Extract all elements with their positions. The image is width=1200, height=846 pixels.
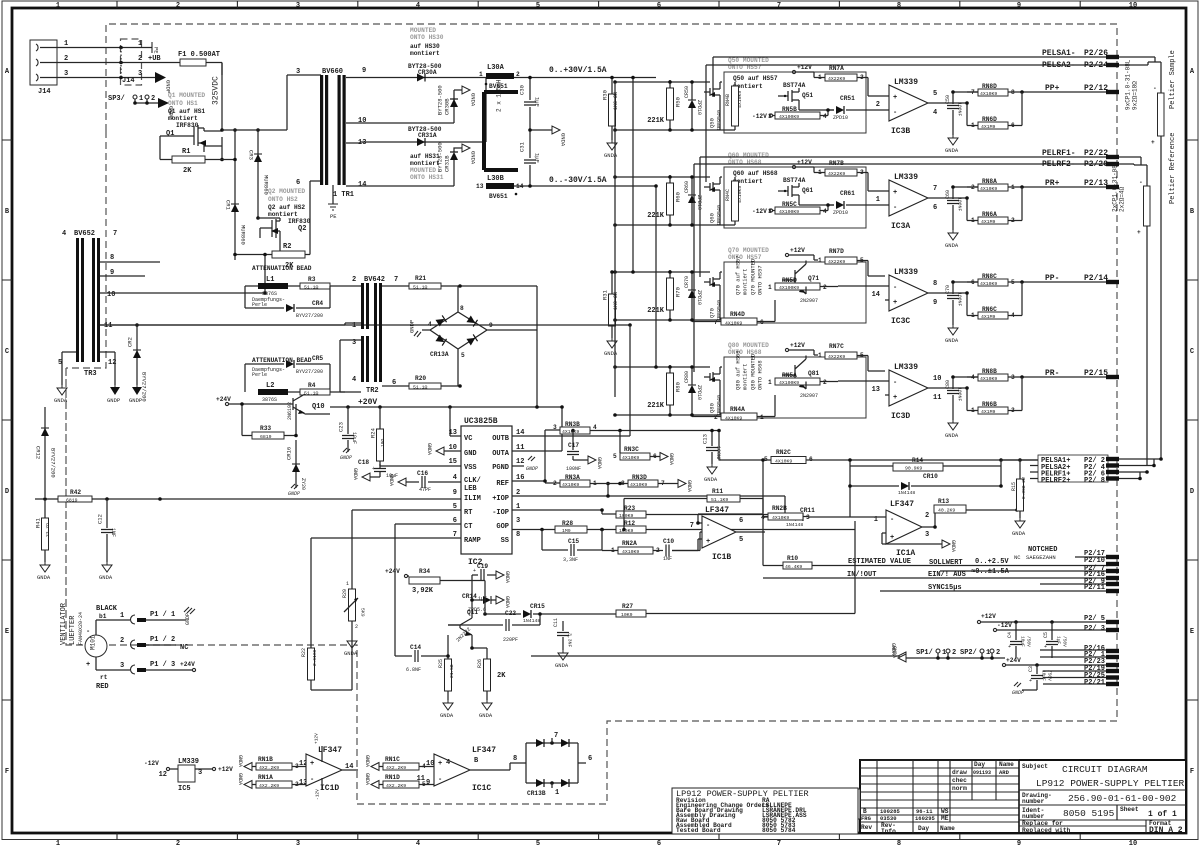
svg-text:1: 1 bbox=[818, 352, 822, 359]
svg-text:LM339: LM339 bbox=[894, 268, 918, 277]
svg-text:F: F bbox=[1190, 768, 1194, 776]
svg-text:RN4B: RN4B bbox=[725, 94, 731, 106]
transistor Q11 bbox=[448, 598, 478, 648]
svg-text:P2/24: P2/24 bbox=[1084, 61, 1108, 70]
svg-text:10: 10 bbox=[1129, 840, 1137, 846]
svg-text:10: 10 bbox=[358, 117, 366, 125]
svg-text:-: - bbox=[893, 379, 897, 387]
svg-text:TR3: TR3 bbox=[84, 370, 97, 378]
svg-text:90.9K9: 90.9K9 bbox=[905, 466, 922, 472]
resistor R11 bbox=[622, 488, 763, 531]
capacitor C30 bbox=[519, 76, 541, 130]
svg-text:GNDA: GNDA bbox=[555, 662, 569, 669]
svg-text:GNDP: GNDP bbox=[526, 466, 538, 472]
svg-text:9: 9 bbox=[362, 67, 366, 75]
capacitor C16 bbox=[388, 470, 461, 493]
svg-text:+UB: +UB bbox=[148, 55, 161, 63]
dotted link between pins bbox=[120, 48, 122, 78]
svg-text:ZPD10: ZPD10 bbox=[833, 210, 848, 216]
channel feed vertical A bbox=[614, 82, 616, 397]
svg-text:E: E bbox=[5, 628, 9, 636]
svg-text:ONTO HS68: ONTO HS68 bbox=[757, 360, 764, 390]
svg-text:Q70: Q70 bbox=[709, 308, 716, 318]
op-amp IC3B LM339 bbox=[876, 78, 967, 136]
transistor Q71 2N2907 bbox=[782, 261, 819, 305]
svg-text:Perle: Perle bbox=[252, 302, 267, 308]
svg-text:GNDA: GNDA bbox=[388, 474, 394, 486]
svg-text:C19: C19 bbox=[477, 563, 488, 570]
svg-text:RN3C: RN3C bbox=[624, 446, 639, 453]
svg-text:2N2907: 2N2907 bbox=[800, 298, 818, 304]
svg-text:1N4148: 1N4148 bbox=[786, 522, 803, 528]
resistor network RN7A bbox=[818, 65, 885, 96]
wire pelrf to reference bbox=[1119, 157, 1147, 186]
svg-text:ZPD10: ZPD10 bbox=[696, 290, 702, 305]
svg-text:montiert: montiert bbox=[410, 50, 440, 57]
connector J14 bbox=[30, 40, 57, 96]
diode bridge CR13B bbox=[513, 732, 592, 797]
svg-text:1NF: 1NF bbox=[663, 556, 672, 562]
svg-text:+24V: +24V bbox=[385, 568, 400, 575]
svg-text:1: 1 bbox=[942, 649, 946, 657]
svg-text:8: 8 bbox=[621, 480, 625, 487]
svg-text:2: 2 bbox=[120, 637, 124, 645]
svg-text:C4: C4 bbox=[1007, 632, 1013, 638]
svg-text:8: 8 bbox=[933, 280, 937, 288]
svg-text:IC1D: IC1D bbox=[320, 784, 339, 793]
mounting note bbox=[728, 247, 769, 261]
dashed small box around J14 second connector bbox=[121, 39, 142, 85]
svg-text:6: 6 bbox=[760, 319, 764, 326]
wires peltier returns bbox=[1119, 457, 1163, 480]
TITLE BLOCK bbox=[843, 760, 1186, 835]
svg-text:1µF: 1µF bbox=[534, 97, 541, 107]
svg-text:-: - bbox=[893, 284, 897, 292]
left revision grid bbox=[860, 760, 1019, 833]
svg-text:C17: C17 bbox=[568, 442, 579, 449]
svg-text:2: 2 bbox=[823, 379, 827, 386]
svg-text:1: 1 bbox=[56, 840, 60, 846]
resistor R10 bbox=[763, 513, 1108, 570]
op-amp IC3A LM339 bbox=[876, 173, 967, 231]
transistor Q60 bbox=[704, 167, 866, 228]
svg-text:OUTB: OUTB bbox=[492, 435, 510, 443]
SP1 SP2 jumpers bbox=[906, 649, 1005, 660]
svg-text:10: 10 bbox=[107, 291, 115, 299]
svg-text:2N6192: 2N6192 bbox=[287, 402, 293, 420]
zener CR70 bbox=[684, 272, 702, 320]
svg-text:R10: R10 bbox=[787, 555, 798, 562]
second J14 pin labels bbox=[122, 40, 142, 85]
resistor R24 bbox=[370, 407, 387, 466]
svg-text:GNDP: GNDP bbox=[288, 491, 300, 497]
svg-text:+: + bbox=[1137, 229, 1141, 236]
svg-text:RN7D: RN7D bbox=[829, 248, 844, 255]
svg-text:7: 7 bbox=[554, 732, 558, 740]
svg-text:Q81: Q81 bbox=[808, 370, 819, 377]
svg-text:R27: R27 bbox=[622, 603, 633, 610]
resistor network RN6C bbox=[965, 282, 1022, 320]
svg-text:ZPD10: ZPD10 bbox=[696, 385, 702, 400]
svg-text:3: 3 bbox=[296, 68, 300, 76]
IC5 LM339 supply box bbox=[144, 758, 233, 793]
svg-text:Q80: Q80 bbox=[709, 403, 716, 413]
svg-text:6: 6 bbox=[588, 755, 592, 763]
resistor network RN8C bbox=[967, 273, 1030, 287]
svg-text:13: 13 bbox=[872, 386, 880, 394]
svg-text:CR31B: CR31B bbox=[444, 155, 451, 172]
svg-text:C80: C80 bbox=[945, 380, 951, 389]
svg-text:4X22K9: 4X22K9 bbox=[828, 354, 845, 360]
svg-text:VENTILATOR: VENTILATOR bbox=[60, 602, 68, 645]
svg-text:4: 4 bbox=[446, 759, 450, 767]
svg-text:ZPD10: ZPD10 bbox=[696, 195, 702, 210]
svg-text:CT: CT bbox=[464, 523, 472, 531]
svg-text:RN1A: RN1A bbox=[258, 774, 273, 781]
svg-text:R60: R60 bbox=[675, 192, 682, 202]
+12V bbox=[785, 247, 818, 260]
svg-text:C15: C15 bbox=[568, 538, 579, 545]
inductor L30B bbox=[476, 175, 656, 200]
svg-text:NC: NC bbox=[1014, 554, 1021, 561]
svg-text:SS: SS bbox=[501, 537, 509, 545]
resistor R70 bbox=[647, 270, 681, 320]
resistor network RN8D bbox=[967, 83, 1030, 97]
svg-text:Q60 auf HS68: Q60 auf HS68 bbox=[733, 170, 778, 177]
svg-text:2: 2 bbox=[64, 55, 68, 63]
svg-text:51.1Ω: 51.1Ω bbox=[304, 391, 319, 397]
label BLACK b1 bbox=[96, 605, 118, 620]
svg-text:R50: R50 bbox=[675, 97, 682, 107]
resistor R26 bbox=[470, 646, 506, 719]
svg-text:GNDA: GNDA bbox=[99, 574, 113, 581]
svg-text:CR10: CR10 bbox=[923, 473, 938, 480]
svg-text:10: 10 bbox=[933, 375, 941, 383]
svg-text:4X10K9: 4X10K9 bbox=[622, 549, 639, 555]
svg-text:L1: L1 bbox=[266, 276, 274, 284]
resistor network RN3D bbox=[621, 474, 692, 492]
zener CR50 bbox=[684, 82, 702, 130]
svg-text:+: + bbox=[890, 534, 894, 542]
label rt RED bbox=[96, 674, 109, 691]
svg-text:ONTO HS57: ONTO HS57 bbox=[757, 265, 764, 295]
wire pelsa to sample bbox=[1119, 57, 1161, 93]
svg-text:GNDA: GNDA bbox=[945, 337, 959, 344]
resistor network RN2B bbox=[761, 505, 810, 521]
svg-text:R22: R22 bbox=[301, 648, 307, 657]
GNDA mid bbox=[528, 126, 566, 147]
svg-text:F: F bbox=[5, 768, 9, 776]
resistor R23 bbox=[600, 496, 785, 519]
svg-text:Q2 MOUNTED: Q2 MOUNTED bbox=[268, 188, 305, 195]
svg-text:C30: C30 bbox=[519, 85, 526, 95]
svg-text:6.8NF: 6.8NF bbox=[406, 667, 421, 673]
transformer TR2 BV642 bbox=[352, 276, 398, 395]
capacitor C80 bbox=[945, 375, 978, 420]
wire P2/3 bbox=[1084, 625, 1119, 633]
svg-text:4X10K9: 4X10K9 bbox=[630, 482, 647, 488]
svg-text:-: - bbox=[706, 522, 710, 530]
svg-text:2: 2 bbox=[138, 55, 142, 63]
svg-text:R2: R2 bbox=[283, 243, 291, 251]
svg-text:Info: Info bbox=[881, 828, 896, 835]
svg-text:B: B bbox=[863, 808, 867, 815]
svg-text:4X2.2K9: 4X2.2K9 bbox=[386, 765, 406, 771]
resistor network RN4D bbox=[692, 300, 775, 327]
svg-text:1: 1 bbox=[138, 40, 142, 48]
svg-text:R21: R21 bbox=[415, 275, 426, 282]
svg-text:CR12: CR12 bbox=[35, 446, 42, 459]
resistor R15 bbox=[1011, 460, 1027, 537]
motor M101 bbox=[85, 620, 130, 670]
+24V R34 bbox=[385, 568, 409, 578]
svg-text:SP3/: SP3/ bbox=[108, 95, 125, 103]
svg-text:GNDA: GNDA bbox=[504, 596, 510, 608]
wire P2/23 bbox=[1084, 658, 1119, 667]
capacitor C70 bbox=[945, 280, 978, 325]
svg-text:4X2.2K9: 4X2.2K9 bbox=[259, 783, 279, 789]
svg-text:6819: 6819 bbox=[66, 498, 78, 504]
svg-text:J14: J14 bbox=[122, 77, 135, 85]
svg-text:12: 12 bbox=[516, 458, 524, 466]
svg-text:J14: J14 bbox=[38, 88, 51, 96]
resistor network RN6B bbox=[965, 377, 1022, 415]
svg-text:-: - bbox=[86, 628, 90, 636]
svg-text:8: 8 bbox=[897, 840, 901, 846]
svg-text:8050 5195: 8050 5195 bbox=[1063, 808, 1115, 819]
diode CR1 bbox=[225, 128, 247, 260]
svg-text:RED: RED bbox=[96, 683, 109, 691]
svg-text:IC1C: IC1C bbox=[472, 784, 491, 793]
svg-text:100285: 100285 bbox=[880, 808, 901, 815]
ground GNDP bridge bbox=[409, 320, 422, 337]
svg-text:+: + bbox=[372, 466, 375, 472]
svg-text:PR+: PR+ bbox=[1045, 179, 1060, 188]
svg-text:+24V: +24V bbox=[1006, 657, 1021, 664]
svg-text:b1: b1 bbox=[99, 613, 107, 620]
svg-text:BV642: BV642 bbox=[364, 276, 385, 284]
svg-text:47PF: 47PF bbox=[419, 487, 431, 493]
svg-text:7: 7 bbox=[113, 230, 117, 238]
resistor network RN1D bbox=[364, 773, 434, 789]
svg-text:RN1D: RN1D bbox=[385, 774, 400, 781]
wire REF bbox=[512, 430, 560, 483]
resistor R14 bbox=[848, 457, 1001, 517]
svg-text:PE: PE bbox=[330, 213, 337, 220]
svg-text:ONTO HS68: ONTO HS68 bbox=[728, 159, 762, 166]
svg-text:5: 5 bbox=[536, 840, 540, 846]
resistor network RN3A bbox=[553, 474, 630, 488]
wire PELRF1- bbox=[700, 149, 1119, 159]
column numbers bottom bbox=[56, 840, 1137, 846]
SP3 jumper bbox=[108, 95, 158, 105]
svg-text:Name: Name bbox=[999, 761, 1014, 768]
resistor R34 bbox=[409, 568, 472, 595]
svg-text:2: 2 bbox=[355, 624, 358, 630]
diode CR3 bbox=[248, 128, 270, 220]
svg-text:+: + bbox=[893, 394, 897, 402]
svg-text:OUTA: OUTA bbox=[492, 450, 510, 458]
svg-text:46.4K9: 46.4K9 bbox=[785, 564, 802, 570]
svg-text:4X2.2K9: 4X2.2K9 bbox=[259, 765, 279, 771]
svg-text:+: + bbox=[310, 760, 314, 768]
svg-text:PELRF2+: PELRF2+ bbox=[1041, 477, 1070, 485]
svg-text:14: 14 bbox=[872, 291, 880, 299]
svg-text:R24: R24 bbox=[370, 427, 377, 438]
svg-text:P2/12: P2/12 bbox=[1084, 84, 1108, 93]
svg-text:4X10K9: 4X10K9 bbox=[980, 91, 997, 97]
svg-text:Q50: Q50 bbox=[709, 118, 716, 128]
svg-text:-12V: -12V bbox=[752, 113, 767, 120]
svg-text:R4: R4 bbox=[308, 382, 316, 389]
resistor network RN3C bbox=[613, 431, 674, 466]
svg-text:10K9: 10K9 bbox=[621, 612, 633, 618]
ground GNDA bbox=[945, 135, 959, 154]
op-amp IC3D LM339 bbox=[872, 363, 967, 421]
node PE bbox=[152, 42, 160, 54]
svg-text:CR70: CR70 bbox=[684, 276, 690, 288]
svg-text:GND: GND bbox=[464, 450, 477, 458]
svg-text:GNDP: GNDP bbox=[1012, 690, 1024, 696]
svg-text:2N2907: 2N2907 bbox=[800, 393, 818, 399]
svg-text:+IOP: +IOP bbox=[492, 495, 509, 503]
resistor R21 bbox=[382, 275, 537, 407]
resistor network RN5D bbox=[768, 277, 885, 294]
svg-text:ONTO HS2: ONTO HS2 bbox=[268, 196, 298, 203]
svg-text:4X1M9: 4X1M9 bbox=[981, 409, 996, 415]
svg-text:2 x 1.5mH: 2 x 1.5mH bbox=[496, 79, 503, 112]
wire TR3 pin10 bbox=[100, 253, 267, 295]
svg-text:CR30A: CR30A bbox=[418, 69, 437, 76]
svg-text:P1 / 2: P1 / 2 bbox=[150, 636, 175, 644]
svg-text:-12V: -12V bbox=[144, 760, 159, 767]
diode CR30B bbox=[346, 85, 462, 123]
svg-text:7: 7 bbox=[714, 319, 718, 326]
wire SYNC15us P2/11 bbox=[880, 584, 1119, 593]
svg-text:+: + bbox=[1151, 139, 1155, 146]
wire P2/1 bbox=[1040, 651, 1119, 659]
svg-text:BST74A: BST74A bbox=[783, 177, 806, 184]
op-amp IC1C LF347 bbox=[417, 746, 518, 793]
capacitor C10 bbox=[659, 532, 702, 562]
svg-text:R26: R26 bbox=[477, 659, 483, 668]
capacitor C4 bbox=[1007, 622, 1032, 658]
svg-text:1: 1 bbox=[555, 789, 559, 797]
svg-text:-: - bbox=[1153, 85, 1157, 92]
op-amp IC1D LF347 bbox=[306, 746, 358, 793]
ground GNDA R30 bbox=[604, 140, 618, 159]
svg-text:ZPD10: ZPD10 bbox=[696, 100, 702, 115]
svg-text:PP-: PP- bbox=[1045, 274, 1059, 283]
svg-text:3: 3 bbox=[198, 769, 202, 777]
resistor R33 bbox=[240, 402, 296, 440]
resistor R30 bbox=[602, 76, 620, 140]
svg-text:LUEFTER: LUEFTER bbox=[69, 615, 77, 645]
svg-text:100NF: 100NF bbox=[715, 446, 721, 461]
transistor Q50 bbox=[704, 72, 866, 133]
svg-text:8: 8 bbox=[516, 531, 520, 539]
svg-text:FRG: FRG bbox=[861, 815, 872, 822]
svg-text:GNDA: GNDA bbox=[479, 712, 493, 719]
svg-text:RT: RT bbox=[464, 509, 472, 517]
svg-text:1K6 2W: 1K6 2W bbox=[613, 92, 619, 110]
+12V bbox=[785, 342, 818, 355]
svg-text:R41: R41 bbox=[35, 517, 42, 528]
svg-text:3: 3 bbox=[516, 517, 520, 525]
ground GNDA bbox=[945, 325, 959, 344]
svg-text:7: 7 bbox=[933, 185, 937, 193]
svg-text:4: 4 bbox=[823, 113, 827, 120]
wire PP+ to P2/12 bbox=[1030, 84, 1119, 94]
svg-text:C11: C11 bbox=[553, 618, 559, 627]
capacitor C50 bbox=[945, 90, 978, 135]
svg-text:Sheet: Sheet bbox=[1120, 806, 1139, 813]
resistor network RN7B bbox=[818, 160, 885, 191]
svg-text:P2/13: P2/13 bbox=[1084, 179, 1108, 188]
svg-text:R11: R11 bbox=[712, 488, 723, 495]
peltier reference resistor bbox=[1137, 179, 1150, 466]
svg-text:montiert: montiert bbox=[410, 160, 440, 167]
svg-text:9: 9 bbox=[1017, 2, 1021, 10]
svg-text:montiert: montiert bbox=[268, 211, 298, 218]
svg-text:P1 / 1: P1 / 1 bbox=[150, 611, 175, 619]
op-amp IC1A LF347 bbox=[874, 500, 946, 558]
svg-text:14: 14 bbox=[358, 181, 366, 189]
svg-text:IC5: IC5 bbox=[178, 785, 191, 793]
wire TR3 pin12 to GNDP bbox=[100, 352, 120, 404]
svg-text:GNDA: GNDA bbox=[237, 773, 243, 785]
svg-text:4X10K9: 4X10K9 bbox=[980, 376, 997, 382]
wire P2/10 pad bbox=[1084, 557, 1119, 566]
svg-text:+: + bbox=[86, 661, 90, 669]
ground GNDA GND pin bbox=[426, 443, 461, 455]
ground GNDA bbox=[945, 420, 959, 439]
svg-text:Peltier Sample: Peltier Sample bbox=[1169, 50, 1177, 109]
-12V terminal bbox=[993, 622, 1108, 632]
svg-text:Q60: Q60 bbox=[709, 213, 716, 223]
svg-text:C13: C13 bbox=[702, 434, 709, 444]
svg-text:R34: R34 bbox=[419, 568, 430, 575]
wire RT bbox=[352, 510, 461, 585]
inductor L2 bbox=[258, 382, 288, 403]
svg-text:BV651: BV651 bbox=[489, 193, 508, 200]
wire P2/16 bbox=[1040, 645, 1119, 653]
svg-text:7: 7 bbox=[777, 840, 781, 846]
svg-text:+: + bbox=[893, 189, 897, 197]
svg-text:montiert: montiert bbox=[742, 364, 749, 390]
svg-text:GNDA: GNDA bbox=[560, 133, 567, 147]
resistor network RN7D bbox=[818, 248, 885, 276]
svg-text:rt: rt bbox=[100, 674, 108, 681]
svg-text:GNDP: GNDP bbox=[185, 613, 191, 625]
svg-text:-: - bbox=[1139, 179, 1143, 186]
svg-text:C23: C23 bbox=[338, 422, 345, 432]
svg-text:4X1M9: 4X1M9 bbox=[981, 219, 996, 225]
svg-text:Q80 auf HS68: Q80 auf HS68 bbox=[735, 350, 742, 390]
svg-text:IC1B: IC1B bbox=[712, 553, 731, 562]
capacitor C60 bbox=[945, 185, 978, 230]
svg-text:1: 1 bbox=[479, 71, 483, 78]
svg-text:9: 9 bbox=[1017, 840, 1021, 846]
GNDA arrow right bbox=[462, 86, 477, 107]
op-amp IC3C LM339 bbox=[872, 268, 967, 326]
svg-text:6819: 6819 bbox=[260, 434, 272, 440]
svg-text:3876S: 3876S bbox=[262, 397, 277, 403]
svg-text:montiert: montiert bbox=[168, 115, 198, 122]
svg-text:2xCP1.0-31-08L: 2xCP1.0-31-08L bbox=[1112, 161, 1119, 212]
inductor L30A bbox=[479, 64, 656, 90]
connector P1 pin1 bbox=[120, 611, 186, 624]
